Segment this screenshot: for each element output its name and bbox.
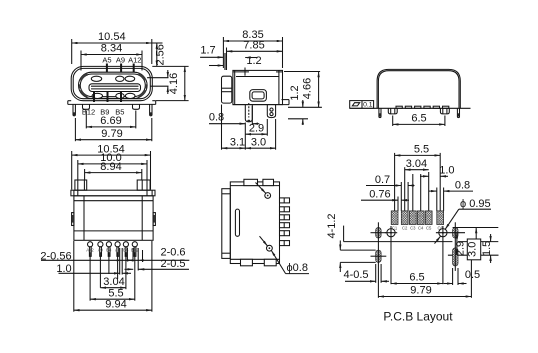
- front plate profile: [222, 189, 231, 259]
- dim 10.54 plan: [72, 143, 151, 189]
- dim 8.94: [85, 161, 142, 180]
- dim 10.54 top: [72, 31, 152, 64]
- svg-text:1.7: 1.7: [200, 45, 215, 57]
- mount tabs: [388, 108, 449, 114]
- svg-text:0.76: 0.76: [369, 189, 390, 201]
- svg-text:C3: C3: [410, 226, 416, 231]
- pad extension lines: [395, 153, 444, 211]
- pin balloons: [88, 242, 138, 247]
- dim 4-0.5: [343, 264, 389, 283]
- svg-text:5.5: 5.5: [414, 144, 429, 156]
- svg-text:A9: A9: [98, 247, 104, 252]
- dim 1.0 pcb: [420, 165, 455, 177]
- svg-text:4.66: 4.66: [302, 78, 314, 99]
- svg-text:4-0.5: 4-0.5: [343, 269, 368, 281]
- dim 1.7: [200, 45, 223, 66]
- dim 0.8 pcb: [429, 179, 473, 191]
- svg-text:3.04: 3.04: [103, 276, 124, 288]
- shell dome outer: [377, 69, 460, 108]
- svg-text:3.04: 3.04: [406, 158, 427, 170]
- ext lines below pins: [90, 248, 142, 301]
- body shell side: [233, 70, 283, 104]
- plan body: [74, 196, 153, 241]
- dim 6.69: [86, 111, 136, 129]
- svg-text:9.79: 9.79: [410, 285, 431, 297]
- contact ovals: [91, 76, 135, 98]
- dim 2.56 right side: [152, 43, 189, 66]
- svg-text:A5: A5: [102, 56, 111, 65]
- rear contact row: [396, 106, 449, 108]
- svg-text:0.5: 0.5: [465, 269, 480, 281]
- svg-text:0.8: 0.8: [455, 179, 470, 191]
- callout 2-0.5: [125, 258, 190, 270]
- svg-text:8.94: 8.94: [100, 161, 121, 173]
- svg-text:A12: A12: [128, 56, 141, 65]
- svg-text:3.0: 3.0: [467, 242, 479, 257]
- dim 9.79: [75, 118, 151, 141]
- mounting slots: [376, 228, 458, 267]
- small unlabeled vertical dim arrows: [147, 70, 168, 94]
- flatness callout box: [350, 101, 374, 109]
- pcb baseline: [350, 107, 471, 109]
- crossbar: [71, 190, 155, 196]
- dim 7.85: [225, 40, 283, 71]
- pin labels B12 B9 B5: [82, 108, 125, 117]
- bottom rear step: [233, 100, 289, 105]
- B row leaders: [94, 92, 121, 103]
- pin stems: [89, 247, 136, 256]
- dim 3.04 pcb: [405, 158, 429, 170]
- dia 0.95 callout: [435, 198, 492, 243]
- svg-text:1.0: 1.0: [439, 165, 454, 177]
- dim 1.2 right: [288, 85, 308, 125]
- dim 8.34: [81, 43, 142, 71]
- base bracket: [68, 101, 156, 105]
- receptacle pill outer: [79, 72, 148, 98]
- svg-text:0.7: 0.7: [375, 174, 390, 186]
- svg-text:B5: B5: [123, 247, 129, 252]
- dim 9.94: [74, 241, 152, 312]
- right ext line top: [453, 227, 499, 229]
- dim 3.0 boxed: [467, 228, 481, 260]
- comb teeth pins: [280, 198, 290, 246]
- dim 4.16: [156, 66, 189, 100]
- dim 6.5 pcb: [391, 272, 443, 284]
- svg-text:3.0: 3.0: [251, 137, 266, 149]
- dim 0.5: [444, 268, 481, 285]
- front leg: [245, 103, 252, 122]
- svg-text:B8: B8: [106, 247, 112, 252]
- svg-text:A12: A12: [86, 247, 94, 252]
- svg-text:9.94: 9.94: [105, 298, 126, 310]
- svg-text:C4: C4: [418, 226, 424, 231]
- side latch bumps: [72, 213, 156, 226]
- dim 5.5 pcb: [395, 144, 441, 156]
- top edge band: [230, 179, 279, 185]
- dim 6.5 rear: [393, 113, 445, 127]
- profile body: [230, 182, 279, 264]
- receptacle pill inner: [80, 74, 145, 97]
- shell inner contour: [73, 68, 150, 98]
- dim 2.9 pcb: [454, 233, 466, 256]
- dim 0.7: [366, 174, 415, 186]
- side window: [250, 90, 267, 102]
- svg-text:1.2: 1.2: [246, 55, 261, 67]
- solder legs: [83, 104, 140, 109]
- pad labels C1-C6: [392, 226, 444, 231]
- dim 4.66: [284, 72, 322, 108]
- board outline: [344, 226, 499, 298]
- svg-text:2.9: 2.9: [249, 123, 264, 135]
- svg-text:1.5: 1.5: [481, 241, 493, 256]
- svg-text:4.16: 4.16: [168, 73, 180, 94]
- holes: [385, 226, 465, 284]
- svg-text:1.2: 1.2: [289, 85, 301, 100]
- shell outer body: [71, 66, 152, 100]
- bottom edge band: [230, 259, 279, 266]
- svg-text:2.9: 2.9: [454, 241, 466, 256]
- tiny pin net labels: [86, 247, 139, 252]
- front bracket plate: [222, 76, 232, 103]
- dim 3.04 plan: [100, 276, 126, 288]
- dim 0.8 bottom: [209, 106, 259, 125]
- rear tabs plan: [75, 180, 150, 190]
- dim 3.1 and 3.0: [222, 105, 276, 150]
- inner slot: [235, 209, 239, 236]
- svg-text:3.1: 3.1: [230, 137, 245, 149]
- svg-text:6.5: 6.5: [409, 272, 424, 284]
- callout 2-0.56 and 2-0.6 shared line: [40, 246, 189, 262]
- svg-text:4-1.2: 4-1.2: [326, 213, 338, 238]
- svg-text:9.79: 9.79: [101, 128, 122, 140]
- svg-text:2-0.6: 2-0.6: [160, 246, 185, 258]
- svg-text:7.85: 7.85: [243, 40, 264, 52]
- dim 1.2 top: [245, 55, 262, 76]
- svg-text:6.69: 6.69: [100, 115, 121, 127]
- svg-text:A9: A9: [116, 56, 125, 65]
- svg-text:P.C.B Layout: P.C.B Layout: [383, 310, 453, 324]
- slot crosshairs: [371, 222, 456, 297]
- svg-text:C5: C5: [426, 226, 432, 231]
- dim 4-1.2: [326, 213, 376, 272]
- svg-text:0.1: 0.1: [363, 102, 373, 109]
- rear leg with dimples: [267, 105, 275, 118]
- dim 1.5: [481, 234, 493, 263]
- pin labels A5 A9 A12 with leaders: [102, 56, 141, 84]
- svg-text:10.54: 10.54: [98, 31, 126, 43]
- shell dome inner: [378, 71, 459, 109]
- svg-text:ϕ0.8: ϕ0.8: [287, 262, 308, 274]
- svg-text:C2: C2: [402, 226, 408, 231]
- rivet hole callout leaders: [256, 183, 310, 274]
- dim 5.5 plan: [90, 287, 135, 299]
- dim 9.79 pcb: [378, 285, 471, 297]
- svg-text:ϕ 0.95: ϕ 0.95: [460, 198, 491, 210]
- rivets: [265, 193, 272, 252]
- svg-text:6.5: 6.5: [411, 113, 426, 125]
- svg-text:8.34: 8.34: [101, 43, 122, 55]
- svg-text:2.56: 2.56: [155, 44, 167, 65]
- pill corner hatch arcs: [80, 74, 146, 96]
- rear thin pins: [379, 108, 460, 117]
- dim 2.9: [245, 119, 267, 136]
- through pins: [73, 104, 152, 115]
- tongue: [89, 84, 141, 92]
- callout 1.0: [56, 263, 131, 275]
- dim 10.0: [78, 152, 147, 190]
- smt pads C1-C6: [391, 211, 443, 225]
- dim 0.76: [361, 189, 409, 201]
- dim 8.35: [223, 29, 282, 68]
- svg-text:2-0.5: 2-0.5: [160, 258, 185, 270]
